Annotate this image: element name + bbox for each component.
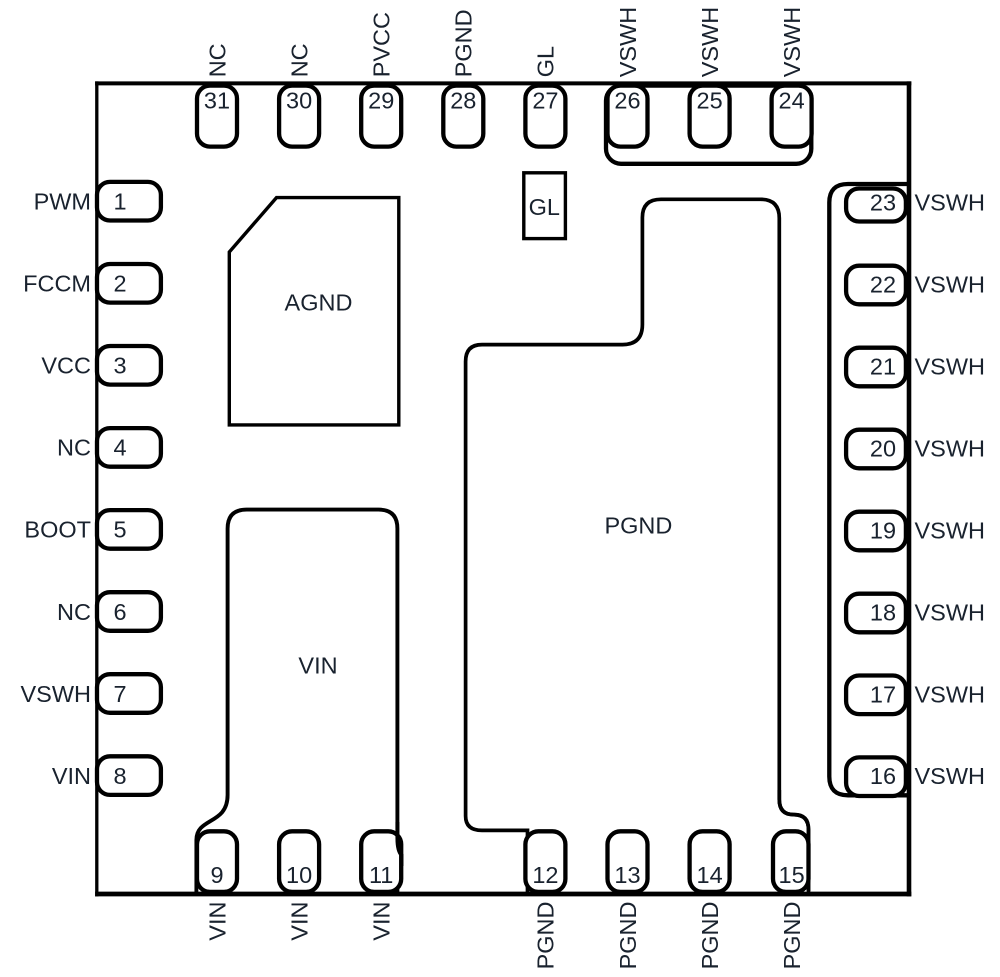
svg-text:VSWH: VSWH <box>915 600 986 626</box>
svg-text:6: 6 <box>113 599 126 625</box>
svg-text:11: 11 <box>369 862 393 888</box>
pin 15 pad <box>773 831 809 892</box>
svg-text:12: 12 <box>532 862 558 888</box>
pin 22 pad <box>846 266 906 305</box>
svg-text:4: 4 <box>113 435 126 461</box>
GL internal pad <box>524 173 566 239</box>
package outline top edge <box>95 81 911 85</box>
pin 16 pad <box>846 757 906 796</box>
package outline bottom edge <box>95 892 911 897</box>
pin 10 pad <box>279 831 319 892</box>
svg-text:FCCM: FCCM <box>23 271 91 297</box>
svg-text:VIN: VIN <box>52 763 91 789</box>
svg-text:18: 18 <box>870 600 896 626</box>
svg-text:VSWH: VSWH <box>615 7 641 78</box>
svg-text:PVCC: PVCC <box>369 12 395 77</box>
svg-text:30: 30 <box>286 88 312 114</box>
svg-text:28: 28 <box>450 88 476 114</box>
pin 4 pad <box>97 428 161 467</box>
svg-text:17: 17 <box>870 681 896 707</box>
pin 2 pad <box>97 264 161 303</box>
wire: PGND edge jog over pin 15 <box>779 790 808 891</box>
pin 12 pad <box>525 831 565 892</box>
svg-text:14: 14 <box>697 862 723 888</box>
svg-text:VSWH: VSWH <box>915 190 986 216</box>
pin 23 pad <box>846 189 906 222</box>
VIN internal pad <box>196 510 397 894</box>
PGND internal pad <box>466 199 809 894</box>
svg-text:PGND: PGND <box>451 9 477 77</box>
svg-text:22: 22 <box>870 272 896 298</box>
svg-text:29: 29 <box>368 88 394 114</box>
svg-text:VSWH: VSWH <box>697 7 723 78</box>
pin 26 pad <box>608 86 648 147</box>
svg-text:25: 25 <box>697 88 723 114</box>
pin 21 pad <box>846 348 906 387</box>
pin 17 pad <box>846 676 906 715</box>
svg-text:PWM: PWM <box>34 189 91 215</box>
svg-text:PGND: PGND <box>615 902 641 970</box>
svg-text:VSWH: VSWH <box>915 518 986 544</box>
pin 31 pad <box>197 86 237 147</box>
pin 5 pad <box>97 510 161 549</box>
svg-text:PGND: PGND <box>533 902 559 970</box>
svg-text:8: 8 <box>113 763 126 789</box>
svg-text:10: 10 <box>286 862 312 888</box>
pin 30 pad <box>279 86 319 147</box>
svg-text:19: 19 <box>870 518 896 544</box>
pin 25 pad <box>690 86 730 147</box>
svg-text:NC: NC <box>204 43 230 77</box>
pin 27 pad <box>525 86 565 147</box>
svg-text:BOOT: BOOT <box>24 517 91 543</box>
svg-text:VIN: VIN <box>298 653 337 679</box>
svg-text:NC: NC <box>57 435 91 461</box>
svg-text:VIN: VIN <box>204 902 230 941</box>
svg-text:9: 9 <box>210 862 223 888</box>
svg-text:VSWH: VSWH <box>915 763 986 789</box>
svg-text:31: 31 <box>204 88 230 114</box>
svg-text:7: 7 <box>113 681 126 707</box>
pin 29 pad <box>361 86 401 147</box>
svg-text:3: 3 <box>113 353 126 379</box>
pin 13 pad <box>608 831 648 892</box>
svg-text:NC: NC <box>57 599 91 625</box>
pin 28 pad <box>443 86 483 147</box>
svg-text:13: 13 <box>614 862 640 888</box>
svg-text:VSWH: VSWH <box>915 272 986 298</box>
package outline left edge <box>95 81 98 896</box>
svg-text:20: 20 <box>870 436 896 462</box>
pin 20 pad <box>846 430 906 469</box>
pin 7 pad <box>97 674 161 713</box>
package outline right edge <box>907 81 912 896</box>
svg-text:VCC: VCC <box>41 353 91 379</box>
pin 19 pad <box>846 512 906 551</box>
pin 3 pad <box>97 346 161 385</box>
pin 9 pad <box>197 831 237 892</box>
svg-text:VSWH: VSWH <box>779 7 805 78</box>
svg-text:PGND: PGND <box>779 902 805 970</box>
svg-text:VSWH: VSWH <box>915 681 986 707</box>
svg-text:AGND: AGND <box>285 290 353 316</box>
svg-text:27: 27 <box>532 88 558 114</box>
right connecting strip pins 16-23 <box>829 184 911 795</box>
svg-text:VSWH: VSWH <box>21 681 92 707</box>
pin 1 pad <box>97 182 161 221</box>
svg-text:26: 26 <box>614 88 640 114</box>
svg-text:23: 23 <box>870 190 896 216</box>
svg-text:VSWH: VSWH <box>915 436 986 462</box>
svg-text:16: 16 <box>870 763 896 789</box>
svg-text:2: 2 <box>113 271 126 297</box>
svg-text:GL: GL <box>533 46 559 77</box>
top connecting band pins 24-26 <box>606 86 811 164</box>
svg-text:PGND: PGND <box>604 513 672 539</box>
pin 18 pad <box>846 594 906 633</box>
pin 11 pad <box>361 831 401 892</box>
svg-text:VIN: VIN <box>369 902 395 941</box>
svg-text:VSWH: VSWH <box>915 354 986 380</box>
pin 14 pad <box>690 831 730 892</box>
pin 24 pad <box>772 86 812 147</box>
AGND internal pad <box>229 198 398 425</box>
svg-text:21: 21 <box>870 354 896 380</box>
svg-text:5: 5 <box>113 517 126 543</box>
pin 8 pad <box>97 756 161 795</box>
pin 6 pad <box>97 592 161 631</box>
svg-text:GL: GL <box>529 194 560 220</box>
wire: VIN right edge over pin 11 <box>397 822 401 866</box>
svg-text:PGND: PGND <box>697 902 723 970</box>
svg-text:VIN: VIN <box>286 902 312 941</box>
svg-text:15: 15 <box>779 862 805 888</box>
svg-text:NC: NC <box>286 43 312 77</box>
svg-text:1: 1 <box>113 189 126 215</box>
svg-text:24: 24 <box>779 88 805 114</box>
